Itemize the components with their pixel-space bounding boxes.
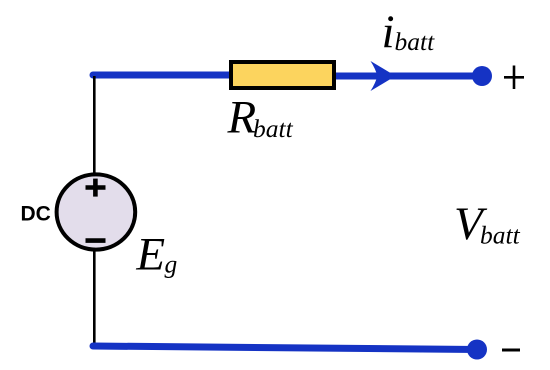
- svg-text:batt: batt: [395, 27, 436, 56]
- wire vertical source top lead: [93, 76, 96, 174]
- source polarity minus: [86, 238, 106, 243]
- svg-text:batt: batt: [480, 221, 521, 250]
- resistor R1 body: [231, 62, 334, 88]
- wire resistor to + terminal: [332, 73, 482, 80]
- svg-text:batt: batt: [253, 114, 294, 143]
- node dot + terminal: [472, 66, 492, 86]
- node dot - terminal: [467, 340, 487, 360]
- current direction arrow: [371, 61, 396, 91]
- svg-text:E: E: [135, 229, 165, 281]
- wire bottom horizontal: [93, 346, 477, 350]
- svg-text:g: g: [165, 250, 178, 279]
- plus terminal sign: [504, 66, 524, 90]
- DC source U1 circle: [57, 174, 136, 249]
- source polarity plus: [86, 179, 106, 197]
- wire vertical source bottom lead: [93, 250, 96, 347]
- svg-text:i: i: [382, 6, 395, 58]
- svg-text:R: R: [227, 92, 257, 144]
- minus terminal sign: [502, 349, 520, 352]
- svg-text:DC: DC: [21, 202, 51, 225]
- wire top-left horizontal: [93, 72, 234, 79]
